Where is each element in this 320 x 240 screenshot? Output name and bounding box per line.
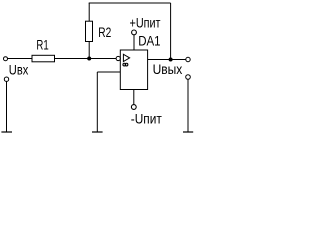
wire output common down bbox=[187, 79, 189, 132]
wire feedback down to output bbox=[170, 3, 172, 60]
terminal input common bbox=[4, 77, 8, 81]
wire feedback top rail bbox=[89, 2, 171, 4]
node junction R1/R2 bbox=[87, 57, 91, 61]
wire R2 top to feedback top rail bbox=[88, 3, 90, 21]
wire input common down bbox=[6, 81, 8, 132]
wire non-inverting down to common bbox=[96, 72, 98, 132]
wire input from Uвх terminal to R1 bbox=[8, 58, 33, 60]
svg-text:Uвых: Uвых bbox=[153, 61, 183, 77]
inverting input bubble bbox=[116, 56, 120, 60]
common bar below output bbox=[183, 131, 193, 133]
infinity gain symbol bbox=[123, 63, 126, 66]
terminal output common bbox=[186, 75, 191, 80]
svg-text:Uвх: Uвх bbox=[9, 61, 29, 77]
wire R1 to inverting input bbox=[55, 58, 117, 60]
wire output to Uвых terminal bbox=[148, 59, 186, 61]
resistor R2 bbox=[86, 21, 93, 41]
common bar below input bbox=[1, 131, 12, 133]
svg-text:-Uпит: -Uпит bbox=[131, 110, 162, 126]
wire bottom pin to -Uпит terminal bbox=[133, 90, 135, 105]
terminal Uвх bbox=[4, 57, 8, 61]
node junction feedback/output bbox=[169, 58, 173, 62]
terminal -Uпит bbox=[131, 105, 136, 110]
resistor R1 bbox=[32, 55, 55, 62]
svg-text:+Uпит: +Uпит bbox=[130, 15, 161, 31]
common bar below non-inverting bbox=[92, 131, 103, 133]
svg-text:R1: R1 bbox=[36, 38, 48, 53]
op-amp DA1 body bbox=[120, 50, 147, 90]
wire top pin to +Uпит terminal bbox=[133, 35, 135, 50]
terminal Uвых bbox=[186, 57, 190, 61]
wire junction up to R2 bbox=[88, 42, 90, 59]
amplifier triangle symbol bbox=[123, 54, 129, 61]
svg-text:R2: R2 bbox=[98, 25, 111, 40]
terminal +Uпит bbox=[132, 30, 137, 35]
wire non-inverting input bbox=[97, 71, 120, 73]
svg-text:DA1: DA1 bbox=[138, 33, 161, 49]
